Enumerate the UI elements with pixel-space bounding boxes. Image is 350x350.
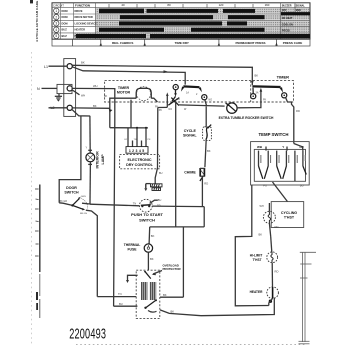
terminal block TB [64, 59, 76, 117]
svg-text:BK: BK [163, 293, 167, 297]
wire main start line [90, 204, 139, 206]
svg-text:BUZZER: BUZZER [282, 4, 292, 7]
heater element [272, 287, 274, 298]
footer cycle labels [112, 41, 302, 45]
svg-text:NO: NO [209, 98, 213, 101]
blade T3 to bridge [252, 88, 254, 94]
svg-text:BU: BU [119, 302, 123, 306]
terminal L2 [67, 105, 72, 110]
svg-text:T'HST: T'HST [284, 215, 295, 219]
wire chime down to start line [201, 177, 203, 207]
svg-text:SIGNAL: SIGNAL [183, 133, 197, 137]
svg-text:CYCLING: CYCLING [281, 211, 297, 215]
left edge scan ticks [35, 189, 39, 256]
svg-text:160: 160 [265, 3, 270, 7]
svg-text:BK GR: BK GR [60, 200, 68, 203]
wire RD entry into inner box [294, 144, 303, 151]
svg-text:BU: BU [159, 172, 163, 175]
footer strip [52, 39, 310, 46]
cam chart bars row2 [120, 15, 213, 19]
terminal circle T1 [173, 85, 178, 90]
svg-text:DOM: DOM [62, 15, 68, 19]
connector arrow on L2 feed [109, 109, 113, 112]
svg-text:BUZ: BUZ [62, 28, 68, 32]
footer cycle dividers [73, 39, 277, 46]
right column tiny text [282, 4, 306, 32]
motor centrifugal switch [146, 301, 156, 308]
wire L1 second feed to timer contact [72, 67, 185, 85]
bridge mid arrowhead [260, 88, 263, 92]
wire motor right exit [160, 296, 183, 298]
terminal L1 [67, 64, 72, 69]
cam chart bars row1 [76, 9, 310, 39]
electronic dry control dashed box [120, 154, 160, 168]
svg-text:NO HEAT: NO HEAT [282, 17, 293, 20]
svg-text:CIRCUIT: CIRCUIT [53, 3, 64, 7]
svg-text:DRIVE MOTOR: DRIVE MOTOR [75, 15, 93, 19]
svg-text:3A: 3A [256, 92, 259, 95]
timer motor exit wire [151, 98, 157, 102]
overload element [145, 272, 151, 279]
svg-text:DRY CONTROL: DRY CONTROL [126, 163, 154, 167]
svg-text:T'HST: T'HST [252, 258, 261, 262]
heater bottom junction blob [269, 300, 272, 303]
wire stub into L2 [49, 107, 68, 109]
circled row numbers [54, 8, 59, 39]
svg-text:CHIME: CHIME [184, 171, 196, 175]
EDC pin header box 12345 [126, 147, 148, 154]
door switch upper blade [72, 199, 79, 206]
bridge right arrowhead [280, 87, 284, 92]
neutral junction box [57, 84, 72, 93]
svg-text:OFF: OFF [282, 9, 287, 12]
svg-text:BK: BK [255, 73, 259, 77]
right page fold strip [299, 252, 317, 343]
wire L2 drop to junction [72, 109, 90, 116]
svg-text:LOCKING DEVICE: LOCKING DEVICE [75, 21, 98, 25]
svg-text:GY: GY [124, 139, 128, 141]
cam chart bars row3 [119, 21, 222, 25]
svg-text:INTERIOR: INTERIOR [96, 151, 100, 169]
interior lamp circle [86, 153, 95, 162]
svg-text:SWITCH: SWITCH [64, 190, 79, 194]
svg-text:THERMAL: THERMAL [124, 243, 141, 247]
lamp pin ticks [88, 149, 92, 151]
rocker switch circle [227, 103, 237, 113]
timer internal dashed divider [250, 81, 252, 102]
header scale numbers [121, 3, 269, 7]
overload pointer arrow [153, 271, 162, 275]
svg-text:PERMANENT PRESS: PERMANENT PRESS [235, 41, 265, 45]
svg-text:BU: BU [300, 184, 304, 188]
wire fuse to motor [147, 252, 149, 270]
svg-text:BK: BK [93, 104, 97, 108]
motor BK riser [182, 227, 184, 297]
wire temp switch left exit [235, 185, 268, 306]
svg-text:PRESS CARE: PRESS CARE [283, 41, 303, 45]
svg-text:BK: BK [171, 309, 175, 313]
svg-text:BK: BK [207, 149, 211, 153]
ground symbol at neutral [55, 94, 62, 98]
arrowhead on T3 drop [251, 81, 254, 85]
svg-text:4: 4 [55, 28, 57, 32]
svg-text:WB: WB [257, 145, 263, 149]
wire heater bottom to rail [269, 298, 273, 305]
terminal N [67, 86, 72, 91]
wire left contact to rocker [179, 105, 225, 106]
push to start blade [141, 204, 151, 207]
svg-text:HEATER: HEATER [250, 290, 264, 294]
push to start contacts [141, 205, 143, 207]
rocker tab [226, 103, 229, 106]
motor dashed box [136, 270, 160, 318]
svg-text:DOM: DOM [62, 21, 68, 25]
svg-text:BK: BK [150, 257, 154, 261]
svg-text:3: 3 [55, 22, 57, 26]
left contact return path [166, 96, 168, 108]
timer NC riser [175, 101, 177, 227]
TIMER_CHART_TABLE [52, 3, 310, 46]
temp switch stub mini labels [260, 155, 306, 163]
wire contact to chassis ground [155, 108, 158, 184]
left page dashed margin line [31, 52, 33, 345]
table column lines [61, 3, 281, 39]
svg-text:5: 5 [55, 34, 57, 38]
svg-text:LAMP: LAMP [101, 154, 105, 165]
timer assembly dashed box [105, 81, 294, 102]
wire lamp bottom to door switch [89, 162, 91, 204]
door switch feed [59, 203, 72, 206]
right column black bar [281, 12, 310, 15]
svg-text:TEMP SWITCH: TEMP SWITCH [259, 132, 289, 137]
cycling thermostat box [271, 202, 304, 228]
svg-text:BK: BK [104, 95, 108, 98]
wire T4 exit to temp switch [286, 98, 294, 144]
thermal fuse circle [144, 244, 152, 252]
temp switch inner box [254, 149, 305, 181]
wire door switch feed [59, 116, 81, 203]
svg-text:WH: WH [93, 84, 98, 88]
motor winding block 1 [141, 282, 147, 300]
svg-text:BR GN: BR GN [80, 213, 87, 215]
wire BU into motor [114, 305, 138, 307]
terminal circle T2 [202, 95, 207, 100]
svg-text:WH: WH [81, 95, 85, 98]
svg-text:N: N [37, 87, 40, 91]
arrowhead on second feed [164, 70, 169, 73]
svg-text:END: END [296, 9, 301, 12]
svg-text:GRN: GRN [81, 196, 86, 198]
svg-text:DRIVE: DRIVE [75, 9, 83, 13]
svg-text:RD: RD [157, 205, 161, 208]
svg-text:PRESS: PRESS [282, 30, 291, 33]
svg-text:BUZ: BUZ [62, 34, 68, 38]
svg-text:REG. FABRICS: REG. FABRICS [112, 41, 133, 45]
wire start line down to lower bus [203, 207, 205, 227]
svg-text:TN: TN [133, 203, 137, 206]
left edge dark scan bar [39, 185, 41, 273]
timer motor dashed circle [137, 87, 151, 101]
svg-text:80: 80 [167, 3, 171, 7]
svg-text:ELECTRONIC: ELECTRONIC [128, 158, 152, 162]
row function labels [62, 9, 98, 38]
wire L2 horizontal [72, 107, 110, 109]
cycling thermostat dashed circle [263, 211, 275, 223]
svg-text:FUSE: FUSE [127, 248, 137, 252]
wire N vertical rail [72, 88, 115, 306]
T1 lower blade [175, 90, 177, 94]
hi-limit element [271, 252, 273, 263]
cam chart bars row4 [99, 28, 164, 32]
svg-text:DOOR: DOOR [66, 186, 77, 190]
svg-text:BK: BK [151, 234, 155, 238]
terminal circle T3 [251, 94, 256, 99]
wire stub into L1 [49, 65, 68, 67]
wire N diagonal stub [72, 90, 79, 95]
right column divider [294, 3, 296, 12]
wire stub into N [42, 87, 58, 89]
svg-text:120: 120 [219, 3, 224, 7]
bridge right arrowhead [199, 87, 202, 92]
buzzer element [206, 127, 207, 140]
left edge scan blobs bottom [36, 292, 38, 300]
svg-text:4 CYCLE AUTO FAB CARE: 4 CYCLE AUTO FAB CARE [35, 1, 39, 42]
wire L1 top bus [72, 65, 253, 67]
wire down to thermal fuse [148, 227, 151, 244]
svg-text:RD: RD [275, 225, 279, 229]
contact blade crossing left [168, 98, 179, 106]
svg-text:1: 1 [55, 9, 57, 13]
ground arrow [145, 184, 147, 189]
wire heater right tail down [201, 298, 274, 316]
svg-text:CYCLE: CYCLE [184, 129, 197, 133]
cycling tstat top lead [268, 203, 270, 211]
svg-text:L1: L1 [44, 65, 48, 69]
svg-text:BK: BK [259, 232, 263, 236]
left edge tick top [30, 0, 33, 3]
temp switch blades [259, 166, 307, 179]
svg-text:FUNCTION: FUNCTION [75, 3, 90, 7]
table outer border [52, 3, 310, 39]
svg-text:RD: RD [275, 270, 279, 274]
wire lamp top [89, 116, 91, 153]
wire hi-limit to heater [271, 263, 273, 287]
push to start switch dashed circle [139, 199, 152, 212]
EDC pin risers [128, 128, 146, 147]
push to start tail [150, 200, 158, 203]
wire cycling out [269, 223, 270, 236]
svg-text:PK: PK [159, 109, 163, 112]
svg-text:TIME DRY: TIME DRY [175, 41, 189, 45]
wire TN into motor [97, 296, 136, 298]
door switch lower blade [72, 205, 83, 209]
svg-text:HEATER: HEATER [75, 28, 86, 32]
svg-text:RD: RD [204, 182, 208, 186]
svg-text:BK: BK [81, 61, 85, 65]
buzzer arrow tick [208, 125, 212, 129]
wire timer motor return [130, 100, 132, 128]
timer motor winding [136, 88, 151, 98]
svg-text:BU: BU [158, 199, 162, 202]
wire EDC pin bus [110, 127, 148, 129]
bridge left arrowhead [181, 87, 185, 92]
wire NC contact to lamp [82, 202, 90, 205]
motor ground spur [128, 275, 138, 280]
svg-text:PROTECTOR: PROTECTOR [163, 267, 182, 271]
svg-text:SWITCH: SWITCH [139, 217, 155, 222]
svg-text:WH: WH [260, 205, 264, 208]
svg-text:1A: 1A [186, 92, 189, 95]
hi-limit thermostat dashed circle [267, 252, 278, 263]
svg-text:PU: PU [263, 183, 267, 187]
chime blade [200, 177, 203, 181]
svg-text:DOM: DOM [62, 9, 68, 13]
temp switch outer box [251, 142, 310, 185]
wire motor bottom exit [160, 310, 201, 316]
heater dashed circle [267, 287, 279, 299]
svg-text:COOL DN: COOL DN [282, 23, 293, 26]
rocker switch lever [227, 104, 236, 112]
wire bus drop to T3 [251, 67, 253, 85]
wire buzzer to chime [205, 139, 206, 167]
cycling thermostat element [268, 212, 271, 224]
svg-text:40: 40 [121, 3, 125, 7]
svg-text:TN: TN [118, 292, 122, 296]
svg-text:2: 2 [55, 15, 57, 19]
svg-text:2200493: 2200493 [69, 325, 106, 342]
lower horizontal bus [150, 226, 205, 228]
wire buzzer feed vertical [205, 106, 207, 126]
svg-text:RD: RD [296, 109, 300, 113]
cam chart bars row5 [76, 34, 146, 38]
motor winding block 2 [150, 282, 156, 300]
svg-text:Y: Y [282, 145, 284, 149]
wire junction to hi-limit [271, 236, 272, 252]
heavy contact bridge right [252, 85, 280, 88]
cycle signal buzzer dashed box [203, 127, 212, 141]
chime symbol [199, 168, 201, 177]
svg-text:NC: NC [177, 98, 181, 101]
thermal fuse inner mark [147, 247, 149, 249]
temp switch contact stubs [259, 147, 303, 182]
svg-text:PK: PK [263, 98, 267, 101]
terminal T4 [282, 93, 287, 98]
TIMER label [276, 74, 291, 80]
door switch pivot [71, 204, 73, 206]
svg-text:SIGNAL: SIGNAL [296, 4, 306, 7]
svg-text:12345: 12345 [129, 149, 146, 153]
junction dots on bus [136, 127, 138, 129]
bottom dashed margin line [76, 344, 306, 346]
svg-text:TN: TN [134, 139, 137, 141]
heavy contact bridge left [183, 85, 199, 88]
lamp filament X [88, 155, 93, 160]
timer motor feed wire [110, 98, 136, 128]
wire NO contact down [86, 210, 98, 296]
svg-text:TIMER: TIMER [118, 86, 130, 90]
chassis ground symbol [151, 184, 163, 191]
wire temp switch to cycling box [273, 182, 288, 202]
svg-text:NO: NO [169, 108, 173, 111]
wire rocker to contact riser [237, 91, 261, 108]
T2 to buzzer stub [205, 100, 207, 106]
table row lines [52, 8, 310, 33]
door switch throw arc dashed [81, 198, 88, 209]
svg-text:MOTOR: MOTOR [117, 90, 131, 94]
svg-text:EXTRA TUMBLE ROCKER SWITCH: EXTRA TUMBLE ROCKER SWITCH [219, 116, 274, 120]
svg-text:TIMER: TIMER [277, 74, 290, 79]
